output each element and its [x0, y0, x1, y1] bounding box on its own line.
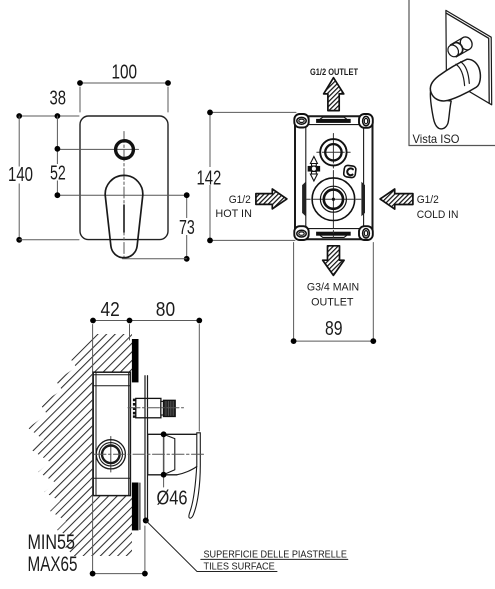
dim 38/140 top extension line	[19, 115, 79, 117]
corner ear top-left	[294, 114, 308, 128]
svg-text:140: 140	[8, 164, 33, 186]
dim 38/52 vertical line	[56, 116, 58, 195]
corner ear top-right	[359, 114, 373, 128]
diverter cartridge outer ring	[320, 139, 346, 165]
shower outlet stub cylinder	[136, 398, 161, 417]
diverter cartridge inner ring	[325, 144, 341, 160]
svg-text:MAX65: MAX65	[28, 553, 78, 576]
lever blade side profile	[189, 433, 201, 518]
svg-text:TILES SURFACE: TILES SURFACE	[204, 561, 276, 572]
grip ring lines	[456, 62, 469, 86]
svg-text:G3/4 MAIN: G3/4 MAIN	[307, 282, 359, 294]
dim 142 vertical line	[209, 112, 211, 240]
svg-text:142: 142	[197, 168, 222, 190]
dim 142 extension lines	[210, 112, 296, 240]
perspective lever blade	[430, 88, 451, 129]
svg-text:Vista ISO: Vista ISO	[413, 132, 460, 146]
mixer cartridge inner ring	[324, 190, 343, 209]
svg-text:G1/2 OUTLET: G1/2 OUTLET	[310, 67, 358, 77]
dim 52 text	[49, 164, 68, 181]
blade-to-grip connecting curve	[177, 467, 197, 475]
vertical centerline through cartridges	[332, 134, 334, 238]
extension line at tiles back surface	[129, 325, 131, 341]
cold inlet arrow (left-pointing)	[380, 189, 413, 209]
shower outlet stub centerline	[128, 407, 184, 409]
svg-text:Ø46: Ø46	[157, 488, 188, 510]
dim 100 line	[80, 83, 168, 112]
handle pivot horizontal centerline	[57, 194, 186, 196]
cartridge boss crosshair vertical	[110, 437, 112, 473]
diverter knob ring	[116, 141, 134, 159]
dim 140 text	[7, 167, 35, 184]
dim 140 bottom extension	[19, 239, 79, 241]
extension line at body back plane (42 dim + MIN/MAX)	[92, 325, 94, 574]
valve body side outline	[93, 372, 130, 495]
corner ear bottom-right	[359, 226, 373, 240]
MIN/MAX extension line at tiles front	[144, 526, 146, 574]
right side tab	[362, 184, 364, 214]
SUPERFICIE underline	[201, 558, 348, 560]
MIN/MAX dimension line	[93, 573, 145, 575]
mixer cartridge crosshair	[307, 198, 361, 200]
handle block (rosette + grip, side)	[148, 434, 197, 475]
trim plate front outline	[80, 116, 168, 240]
cover plate edge-on	[145, 376, 148, 518]
svg-text:42: 42	[101, 299, 120, 321]
Ø46 dimension line	[163, 434, 165, 487]
top flush stub	[317, 117, 351, 122]
tile front outline lower	[139, 483, 141, 530]
valve body inner box	[306, 125, 364, 229]
perspective plate thickness edges	[447, 13, 490, 103]
corner ear bottom-left	[294, 226, 308, 240]
perspective trim plate	[446, 10, 492, 104]
tiles surface leader dot	[143, 518, 149, 524]
diverter knob crosshair line	[57, 148, 138, 150]
svg-text:89: 89	[325, 318, 343, 340]
G3/4 main outlet arrow (down)	[323, 246, 344, 276]
svg-text:73: 73	[179, 217, 195, 239]
extension line at lever front plane	[198, 325, 200, 432]
dim 42/80 line	[93, 320, 199, 322]
cartridge boss inner ring	[102, 446, 120, 464]
hot inlet arrow (right-pointing)	[256, 189, 287, 209]
valve body bottom internal line	[93, 477, 130, 479]
handle stem centerline tick	[123, 205, 125, 232]
svg-text:80: 80	[156, 299, 175, 321]
shower outlet stub serrated nipple	[133, 399, 136, 418]
cartridge boss middle ring	[99, 443, 122, 466]
svg-text:G1/2: G1/2	[417, 194, 439, 206]
valve body back face inner line	[95, 372, 97, 495]
valve body front face inner line	[128, 372, 130, 495]
svg-text:100: 100	[112, 62, 138, 84]
grip cone shoulder lines	[164, 434, 175, 474]
G1/2 outlet arrow (up)	[324, 78, 344, 111]
perspective lever grip	[430, 59, 480, 101]
svg-text:HOT IN: HOT IN	[215, 208, 252, 220]
bottom flush stub	[317, 232, 351, 237]
wall section hatch	[28, 334, 132, 556]
lever handle outline	[105, 175, 143, 257]
mixer cartridge middle ring	[320, 186, 346, 212]
dim 73 vertical line	[186, 195, 188, 259]
cartridge boss outer ring	[96, 440, 125, 469]
temperature arrow icon	[308, 157, 319, 182]
tile section upper black bar	[132, 339, 139, 382]
shower outlet stub threaded end	[164, 400, 176, 416]
mixer cartridge outer ring	[312, 178, 355, 221]
svg-text:SUPERFICIE DELLE PIASTRELLE: SUPERFICIE DELLE PIASTRELLE	[204, 549, 348, 560]
dim 89 extension lines	[294, 243, 374, 342]
plate vertical centerline	[123, 132, 125, 259]
diverter crosshair	[317, 151, 350, 153]
valve body top internal line	[93, 375, 130, 386]
tiles surface leader line	[146, 521, 277, 572]
dim 140 vertical line	[18, 116, 20, 240]
perspective diverter knob	[446, 35, 475, 59]
left side tab	[303, 184, 305, 214]
dim 89 line	[294, 340, 374, 342]
valve body outer box	[295, 116, 373, 239]
rosette front edge	[163, 434, 165, 475]
tile section lower black bar	[132, 483, 139, 531]
svg-text:G1/2: G1/2	[229, 194, 251, 206]
svg-text:MIN55: MIN55	[28, 531, 76, 554]
svg-text:COLD IN: COLD IN	[417, 209, 459, 221]
vista box bottom border	[409, 145, 495, 147]
mixer cartridge center dot	[332, 198, 335, 201]
main horizontal centerline	[94, 453, 205, 455]
svg-text:52: 52	[50, 163, 66, 185]
dim 73 bottom extension	[123, 258, 187, 260]
shower outlet stub neck step	[161, 401, 164, 415]
dim 73 text	[178, 218, 197, 235]
svg-text:38: 38	[50, 88, 67, 110]
svg-text:OUTLET: OUTLET	[311, 297, 354, 309]
C brand logo	[343, 165, 356, 178]
vista box left border	[408, 0, 410, 146]
dim 142 text	[195, 167, 224, 185]
